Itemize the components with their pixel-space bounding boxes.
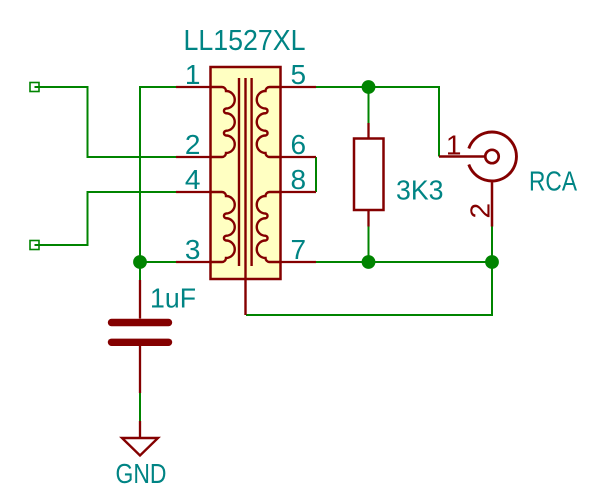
capacitor plate bottom — [112, 339, 169, 346]
pin 5 lead — [280, 86, 316, 88]
resistor top pin — [367, 123, 369, 139]
secondary winding pins 5-6 — [257, 87, 280, 157]
wire: node A down to capacitor — [139, 262, 141, 281]
junction node B at RCA pin 2 — [485, 255, 499, 269]
svg-text:3K3: 3K3 — [396, 175, 444, 206]
capacitor C1 — [112, 280, 169, 393]
svg-text:RCA: RCA — [529, 166, 577, 197]
junction at resistor bottom — [362, 255, 376, 269]
resistor body — [354, 139, 384, 211]
wire: transformer pin 6 to pin 8 link — [315, 157, 317, 192]
capacitor top pin — [139, 280, 141, 319]
wire: input pad 2 to transformer pin 4 — [35, 192, 177, 245]
primary winding pins 1-2 — [211, 87, 235, 157]
RCA shield ring — [469, 132, 517, 181]
pin 3 lead — [176, 261, 211, 263]
ground stem pin — [139, 421, 141, 438]
capacitor plate top — [112, 319, 169, 326]
transformer pin leads — [176, 87, 316, 262]
svg-text:4: 4 — [185, 164, 201, 195]
ground triangle — [122, 438, 158, 456]
RCA pin 1 lead — [439, 155, 485, 158]
svg-text:1: 1 — [185, 59, 201, 90]
transformer T1 — [211, 67, 281, 315]
svg-text:GND: GND — [116, 458, 167, 489]
pin 8 lead — [280, 191, 316, 193]
pin 1 lead — [176, 86, 211, 88]
svg-text:2: 2 — [185, 129, 201, 160]
wire: capacitor to ground symbol — [139, 393, 141, 421]
junction at resistor top — [362, 80, 376, 94]
RCA connector J1 — [439, 132, 516, 227]
svg-text:LL1527XL: LL1527XL — [184, 25, 306, 57]
pin 2 lead — [176, 156, 211, 158]
wire: transformer pin 5 across and down to RCA pin 1 — [316, 87, 439, 157]
wire: resistor top stub — [368, 87, 370, 123]
transformer core line left — [238, 78, 240, 266]
wire: transformer pin 7 row to node B — [316, 261, 492, 263]
capacitor bottom pin — [139, 346, 141, 393]
svg-text:7: 7 — [291, 234, 307, 265]
RCA center contact — [485, 150, 498, 163]
svg-text:1uF: 1uF — [150, 283, 196, 314]
pin 4 lead — [176, 191, 211, 193]
ground symbol — [122, 421, 158, 456]
svg-text:3: 3 — [185, 234, 201, 265]
wire: node A to transformer pin 3 — [140, 261, 176, 263]
RCA pin 2 lead — [491, 183, 494, 227]
transformer core line right — [250, 78, 252, 266]
wire: bottom return from node B to transformer screen pin — [246, 262, 492, 315]
resistor R1 — [354, 123, 384, 227]
secondary winding pins 8-7 — [257, 192, 280, 262]
unconnected wire-end square (input 2) — [30, 241, 39, 250]
wire: transformer pin 1 left and down to node A — [140, 87, 176, 262]
unconnected wire-end square (input 1) — [30, 83, 39, 92]
transformer body box — [211, 67, 281, 279]
wire: RCA pin 2 down to node B — [491, 227, 493, 263]
svg-text:5: 5 — [291, 59, 307, 90]
svg-text:8: 8 — [291, 164, 307, 195]
pin 7 lead — [280, 261, 316, 263]
junction node A — [133, 255, 147, 269]
pin 6 lead — [280, 156, 316, 158]
transformer screen line with bottom pin — [244, 78, 246, 315]
svg-text:2: 2 — [465, 203, 496, 219]
primary winding pins 4-3 — [211, 192, 235, 262]
wire: input pad 1 to transformer pin 2 — [35, 87, 177, 157]
resistor bottom pin — [367, 210, 369, 227]
svg-text:6: 6 — [291, 129, 307, 160]
wire: resistor bottom stub — [368, 226, 370, 262]
svg-text:1: 1 — [446, 130, 462, 161]
